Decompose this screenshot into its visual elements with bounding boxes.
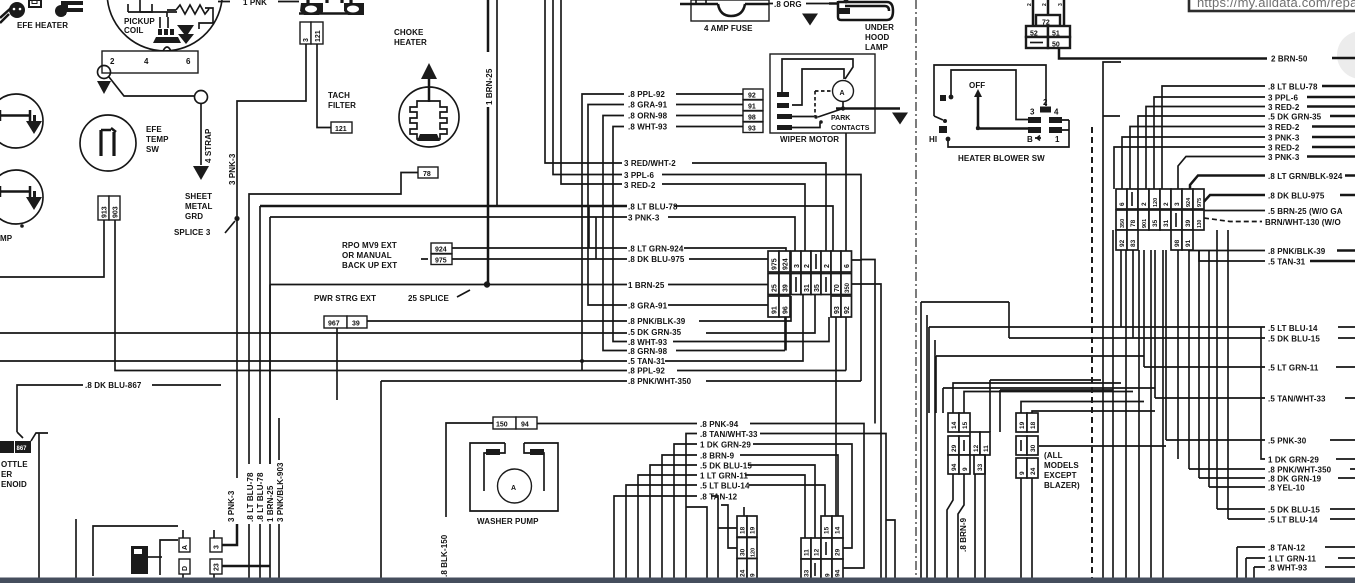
wire pair to red/wht and ppl labels [545, 0, 622, 175]
svg-text:.8 TAN-12: .8 TAN-12 [700, 493, 738, 502]
svg-text:3 RED-2: 3 RED-2 [1268, 103, 1300, 112]
svg-text:9: 9 [1019, 471, 1026, 475]
svg-text:.8 DK BLU-975: .8 DK BLU-975 [628, 255, 685, 264]
wire red/wht-2 [692, 163, 826, 251]
svg-text:MODELS: MODELS [1044, 461, 1079, 470]
svg-text:903: 903 [113, 206, 120, 218]
wire dk blu-975 r [1199, 195, 1265, 210]
wire dk blu-867 [17, 385, 221, 438]
svg-text:19: 19 [750, 526, 757, 534]
under hood lamp [829, 0, 893, 20]
bottom right pin block [801, 516, 843, 580]
svg-text:33: 33 [804, 569, 811, 577]
svg-text:14: 14 [835, 526, 842, 534]
svg-text:.8 GRA-91: .8 GRA-91 [628, 302, 668, 311]
ground arrow sheet metal [193, 166, 209, 180]
svg-text:93: 93 [834, 306, 841, 314]
svg-text:1 LT GRN-11: 1 LT GRN-11 [1268, 555, 1317, 564]
heater blower switch [929, 65, 1069, 147]
svg-text:.8 TAN-12: .8 TAN-12 [1268, 544, 1306, 553]
wire 39 to pnk/blk label [367, 296, 791, 321]
svg-text:MP: MP [0, 234, 13, 243]
wire .5 dk blu-15 b [1217, 230, 1355, 509]
svg-text:CHOKE: CHOKE [394, 28, 424, 37]
right edge stubs top [1307, 86, 1355, 261]
browser url tooltip [1189, 0, 1355, 11]
svg-text:https://my.alldata.com/repa: https://my.alldata.com/repa [1197, 0, 1355, 10]
svg-text:.5 TAN/WHT-33: .5 TAN/WHT-33 [1268, 395, 1326, 404]
wire pin 98 to grn-98 [603, 116, 785, 351]
connector 924 [431, 243, 452, 254]
dashed branch line (right page) [1091, 127, 1093, 578]
connector 23 3 [210, 530, 222, 578]
wire 1 dk grn-29 [1261, 327, 1355, 459]
wire 3 pnk-3 r [1122, 137, 1265, 189]
svg-text:.8 LT GRN/BLK-924: .8 LT GRN/BLK-924 [1268, 172, 1343, 181]
wire 3 ppl-6 r [1154, 97, 1265, 189]
svg-text:.8 ORN-98: .8 ORN-98 [628, 112, 668, 121]
connector A D [179, 530, 190, 578]
svg-text:30: 30 [1030, 444, 1037, 452]
svg-text:39: 39 [783, 284, 790, 292]
svg-text:975: 975 [1197, 198, 1203, 207]
wire stub to lt grn-924 [589, 206, 596, 259]
label TACH FILTER [328, 91, 356, 110]
left gauge circle 1 [0, 94, 43, 148]
svg-text:.8 DK GRN-19: .8 DK GRN-19 [1268, 475, 1322, 484]
svg-text:924: 924 [783, 258, 790, 270]
svg-text:PICKUP: PICKUP [124, 17, 155, 26]
wire dk blu-15 [650, 465, 815, 578]
wire .8 lt blu-78 r [1162, 86, 1265, 189]
wire tan/wht-33 [686, 434, 886, 579]
svg-text:A: A [840, 90, 845, 97]
svg-text:BACK UP EXT: BACK UP EXT [342, 261, 397, 270]
svg-text:3 PPL-6: 3 PPL-6 [624, 171, 654, 180]
throttle kicker connector [0, 433, 48, 453]
svg-text:.8 LT BLU-78: .8 LT BLU-78 [256, 472, 265, 522]
svg-text:3: 3 [1174, 202, 1181, 206]
page boundary dash-dot line [915, 0, 917, 578]
svg-text:SPLICE 3: SPLICE 3 [174, 228, 211, 237]
svg-text:FILTER: FILTER [328, 101, 356, 110]
wire 23 cell bus [222, 565, 270, 568]
svg-text:92: 92 [748, 93, 756, 100]
svg-text:WIPER MOTOR: WIPER MOTOR [780, 135, 839, 144]
left gauge circle 2 [0, 170, 43, 228]
svg-text:91: 91 [772, 306, 779, 314]
svg-text:924: 924 [435, 247, 447, 254]
verticals below right block [1121, 250, 1178, 459]
svg-text:15: 15 [962, 421, 969, 429]
svg-text:PWR STRG EXT: PWR STRG EXT [314, 294, 376, 303]
splice 3 node [234, 216, 239, 221]
svg-text:30: 30 [740, 548, 747, 556]
svg-text:120: 120 [1153, 198, 1159, 207]
svg-text:50: 50 [1052, 42, 1060, 49]
svg-text:6: 6 [186, 57, 191, 66]
svg-text:29: 29 [951, 444, 958, 452]
node ground at pin2 [97, 66, 111, 95]
wire ppl-6 [662, 175, 861, 261]
svg-text:3: 3 [303, 38, 310, 42]
svg-text:.5 LT BLU-14: .5 LT BLU-14 [1268, 324, 1318, 333]
right mid horizontals [921, 302, 1009, 578]
wire tan-31 r [1199, 250, 1265, 261]
vertical wire labels bottom left [227, 462, 285, 522]
svg-text:4: 4 [1054, 108, 1059, 117]
svg-text:78: 78 [1130, 219, 1137, 227]
svg-text:2: 2 [1141, 202, 1148, 206]
svg-text:.5 DK BLU-15: .5 DK BLU-15 [1268, 506, 1320, 515]
wire stub left low [75, 519, 77, 578]
wires below left pin block [741, 580, 752, 582]
svg-text:1 DK GRN-29: 1 DK GRN-29 [700, 441, 751, 450]
4 amp fuse [680, 0, 769, 21]
wire pnk-94 right [750, 424, 864, 569]
ground arrow org [802, 4, 818, 26]
svg-text:12: 12 [814, 548, 821, 556]
ground arrow wiper [892, 109, 908, 125]
svg-text:1 BRN-25: 1 BRN-25 [266, 485, 275, 522]
wires below block B [1021, 478, 1032, 578]
svg-text:2: 2 [1163, 202, 1170, 206]
svg-text:52: 52 [1030, 31, 1038, 38]
wire pin2 node to strap node [109, 77, 195, 96]
svg-text:3: 3 [214, 545, 221, 549]
wire gra-91 [668, 304, 770, 306]
wire lt grn-924 [684, 248, 786, 252]
distributor circle with pickup coil [108, 0, 223, 51]
wire pin 91 to gra-91 [588, 105, 627, 306]
svg-text:.8 PNK/WHT-350: .8 PNK/WHT-350 [628, 377, 692, 386]
svg-text:BLAZER): BLAZER) [1044, 481, 1080, 490]
svg-text:.8 ORG: .8 ORG [774, 0, 802, 9]
svg-text:31: 31 [804, 284, 811, 292]
wire 1 brn-25 vertical [487, 0, 488, 285]
clip symbols [299, 0, 364, 15]
wire .8 tan-12 b [1237, 547, 1355, 578]
svg-text:3: 3 [794, 264, 801, 268]
svg-text:1 BRN-25: 1 BRN-25 [628, 281, 665, 290]
choke heater [399, 63, 459, 147]
svg-text:6: 6 [1119, 202, 1126, 206]
svg-text:913: 913 [102, 206, 109, 218]
wire 3 red-2 r [1146, 107, 1265, 190]
svg-text:1 PNK: 1 PNK [243, 0, 267, 7]
long wire dk grn-35 [0, 295, 815, 333]
svg-text:.8 LT BLU-78: .8 LT BLU-78 [1268, 83, 1318, 92]
svg-text:2: 2 [824, 264, 831, 268]
wire block right row2 [852, 284, 896, 578]
svg-text:24: 24 [1030, 467, 1037, 475]
svg-text:HI: HI [929, 135, 937, 144]
svg-text:9: 9 [962, 467, 969, 471]
svg-text:51: 51 [1052, 31, 1060, 38]
svg-text:HEATER: HEATER [394, 38, 427, 47]
svg-text:.5 DK GRN-35: .5 DK GRN-35 [628, 328, 682, 337]
svg-text:901: 901 [1142, 219, 1148, 228]
svg-text:130: 130 [1197, 219, 1203, 228]
svg-text:CONTACTS: CONTACTS [831, 125, 870, 132]
connector 913 903 [98, 196, 120, 220]
svg-text:.8 TAN/WHT-33: .8 TAN/WHT-33 [700, 430, 758, 439]
wire brn-25 w/o [1204, 210, 1265, 212]
svg-text:4 STRAP: 4 STRAP [204, 128, 213, 163]
svg-text:.5 DK BLU-15: .5 DK BLU-15 [1268, 335, 1320, 344]
svg-text:.8 LT GRN-924: .8 LT GRN-924 [628, 245, 684, 254]
svg-text:3 PNK-3: 3 PNK-3 [1268, 134, 1300, 143]
svg-text:.5 DK BLU-15: .5 DK BLU-15 [700, 462, 752, 471]
connector 78 [418, 167, 438, 178]
svg-text:39: 39 [352, 321, 360, 328]
svg-text:RPO MV9 EXT: RPO MV9 EXT [342, 241, 397, 250]
svg-text:3 PNK/BLK-903: 3 PNK/BLK-903 [276, 462, 285, 522]
svg-text:39: 39 [1185, 219, 1192, 227]
svg-text:SHEET: SHEET [185, 192, 212, 201]
taskbar strip [0, 578, 1355, 583]
svg-text:120: 120 [751, 548, 757, 557]
label UNDER HOOD LAMP [865, 23, 894, 52]
wire 3 pnk-3 upper segment [236, 218, 238, 478]
connector 975 [431, 254, 452, 265]
relay block bottom left [93, 526, 178, 576]
splice 25 node [484, 281, 490, 287]
svg-text:.8 BRN-9: .8 BRN-9 [700, 452, 735, 461]
svg-text:29: 29 [835, 548, 842, 556]
wire from 78 box [249, 173, 418, 465]
wire brn-9 [662, 455, 838, 578]
svg-text:EFE: EFE [146, 125, 162, 134]
wire .5 tan/wht-33 [943, 388, 1355, 413]
svg-text:SW: SW [146, 145, 159, 154]
svg-text:867: 867 [17, 446, 28, 452]
svg-text:B: B [1027, 135, 1033, 144]
efe heater symbol [0, 0, 83, 23]
efe temp switch [80, 115, 136, 171]
svg-text:121: 121 [315, 30, 322, 42]
wire tan-12 [614, 496, 738, 578]
right block feed corner [1103, 62, 1121, 578]
label throttle kicker solenoid [1, 460, 28, 489]
connector 3 121 [300, 22, 323, 44]
svg-text:92: 92 [1119, 239, 1126, 247]
svg-text:9: 9 [825, 573, 832, 577]
svg-text:83: 83 [1130, 239, 1137, 247]
svg-text:.8 GRA-91: .8 GRA-91 [628, 101, 668, 110]
svg-text:94: 94 [521, 422, 529, 429]
svg-text:A: A [182, 545, 189, 550]
wire second vertical top [496, 0, 498, 206]
svg-text:.8 DK BLU-867: .8 DK BLU-867 [85, 381, 142, 390]
svg-text:(ALL: (ALL [1044, 451, 1063, 460]
svg-text:GRD: GRD [185, 212, 203, 221]
svg-text:3: 3 [1058, 3, 1064, 6]
wire .5 pnk-30 [1039, 440, 1355, 446]
svg-text:6: 6 [844, 264, 851, 268]
svg-text:TACH: TACH [328, 91, 350, 100]
wire 903 down to ppl-92 run [115, 220, 846, 371]
splice 3 leader [225, 221, 235, 233]
wire 3 cell to pnk-3 [222, 524, 237, 545]
wires above blocks A B [953, 383, 1133, 413]
wire lt grn-11 [638, 475, 805, 578]
svg-text:COIL: COIL [124, 26, 144, 35]
svg-text:OR MANUAL: OR MANUAL [342, 251, 392, 260]
svg-text:UNDER: UNDER [865, 23, 894, 32]
connector 72 52 51 50 [1026, 0, 1070, 49]
svg-text:METAL: METAL [185, 202, 212, 211]
wire .8 yel-10 [1209, 250, 1265, 487]
svg-text:15: 15 [824, 526, 831, 534]
wire .8 pnk/wht-350 [1189, 468, 1355, 470]
bottom right block A [948, 413, 990, 474]
wiper pin stub wires [676, 94, 743, 127]
svg-text:.5 LT BLU-14: .5 LT BLU-14 [700, 482, 750, 491]
svg-text:.8 DK BLU-975: .8 DK BLU-975 [1268, 192, 1325, 201]
wire pnk/wht-350 [381, 260, 861, 578]
washer pump connector 150 94 [493, 417, 537, 429]
label RPO MV9 EXT [342, 241, 397, 270]
svg-text:.8 WHT-93: .8 WHT-93 [1268, 564, 1308, 573]
wiper motor box [770, 54, 900, 133]
wires below block A [947, 455, 985, 578]
svg-text:WASHER PUMP: WASHER PUMP [477, 517, 539, 526]
wire 3 pnk-3 r2 [1178, 157, 1265, 190]
svg-text:3: 3 [1030, 108, 1035, 117]
svg-text:94: 94 [951, 463, 958, 471]
label ALL MODELS EXCEPT BLAZER [1044, 451, 1080, 490]
wire 94 to pnk-94 [537, 423, 697, 425]
svg-text:.8 WHT-93: .8 WHT-93 [628, 123, 668, 132]
svg-text:.5 TAN-31: .5 TAN-31 [1268, 258, 1306, 267]
svg-text:91: 91 [1185, 239, 1192, 247]
wire 2 brn-50 [1059, 48, 1267, 59]
svg-text:.5 PNK-30: .5 PNK-30 [1268, 437, 1307, 446]
svg-text:TEMP: TEMP [146, 135, 169, 144]
svg-text:350: 350 [1120, 219, 1126, 228]
wire blk-150 [446, 423, 493, 517]
svg-text:12: 12 [973, 444, 980, 452]
svg-text:150: 150 [496, 422, 508, 429]
svg-text:.5 LT GRN-11: .5 LT GRN-11 [1268, 364, 1319, 373]
wire solenoid down [38, 433, 40, 578]
svg-text:2: 2 [1027, 3, 1033, 6]
svg-text:EFE HEATER: EFE HEATER [17, 21, 68, 30]
svg-text:.8 YEL-10: .8 YEL-10 [1268, 484, 1305, 493]
wire org [769, 3, 829, 5]
wire segments below labels [237, 418, 279, 578]
svg-text:3 PNK-3: 3 PNK-3 [628, 214, 660, 223]
wire from cell 121 down [317, 44, 331, 128]
svg-text:14: 14 [951, 421, 958, 429]
svg-text:2: 2 [110, 57, 115, 66]
svg-text:A: A [511, 485, 516, 492]
svg-text:3 PNK-3: 3 PNK-3 [228, 153, 237, 185]
svg-text:924: 924 [1186, 197, 1192, 207]
wire .5 dk blu-15 [1009, 302, 1355, 338]
svg-text:98: 98 [748, 115, 756, 122]
svg-text:975: 975 [772, 258, 779, 270]
svg-text:91: 91 [748, 104, 756, 111]
wire lt blu-14 [626, 485, 825, 578]
label EFE TEMP SW [146, 125, 169, 154]
svg-text:19: 19 [1019, 421, 1026, 429]
svg-text:OTTLE: OTTLE [1, 460, 28, 469]
svg-text:.5 TAN-31: .5 TAN-31 [628, 357, 666, 366]
central connector block [768, 251, 852, 317]
svg-text:.8 PNK/BLK-39: .8 PNK/BLK-39 [628, 317, 686, 326]
svg-text:3 RED-2: 3 RED-2 [1268, 144, 1300, 153]
wire pnk-3 bus [270, 217, 795, 464]
svg-text:18: 18 [1030, 421, 1037, 429]
wire brn/wht-130 dashed [1204, 218, 1262, 222]
svg-text:23: 23 [214, 563, 221, 571]
wire lt blu-78 bus [260, 205, 627, 208]
svg-text:92: 92 [844, 306, 851, 314]
svg-text:.5 LT BLU-14: .5 LT BLU-14 [1268, 516, 1318, 525]
connector 121 [331, 122, 352, 133]
wire from cell 3 down to pnk-3 bus [237, 44, 306, 216]
wires 924 975 to labels [421, 248, 627, 259]
svg-text:.8 PNK/BLK-39: .8 PNK/BLK-39 [1268, 247, 1326, 256]
svg-text:35: 35 [1152, 219, 1159, 227]
wire 2 brn-50 right stub [1332, 57, 1355, 60]
wire block right row1 [846, 133, 875, 424]
svg-text:.5 DK GRN-35: .5 DK GRN-35 [1268, 113, 1322, 122]
svg-text:D: D [182, 566, 189, 571]
svg-text:2: 2 [1042, 3, 1048, 6]
faint ui circle [1337, 31, 1355, 79]
long wire tan-31 [0, 295, 803, 361]
svg-text:.8 LT BLU-78: .8 LT BLU-78 [628, 203, 678, 212]
wire pin 92 to ppl-92 [582, 94, 624, 371]
svg-text:78: 78 [423, 171, 431, 178]
wire 3 red-2 r3 [1114, 147, 1265, 189]
svg-text:18: 18 [740, 526, 747, 534]
wire pnk/blk-39 r [1189, 249, 1265, 252]
strap node [195, 91, 208, 104]
svg-text:.8 PNK-94: .8 PNK-94 [700, 420, 739, 429]
svg-text:LAMP: LAMP [865, 43, 889, 52]
splice 25 leader [457, 290, 470, 297]
svg-text:11: 11 [804, 549, 811, 556]
svg-text:1 BRN-25: 1 BRN-25 [485, 68, 494, 105]
svg-text:25: 25 [772, 284, 779, 292]
svg-text:EXCEPT: EXCEPT [1044, 471, 1077, 480]
wire red-2 [662, 184, 805, 251]
wire 913 down-left [0, 220, 104, 277]
svg-text:975: 975 [435, 258, 447, 265]
svg-text:3 PNK-3: 3 PNK-3 [1268, 153, 1300, 162]
wire band vertical red-2 [561, 0, 622, 184]
wire 3 red-2 r2 [1130, 127, 1265, 190]
connector 2-4-6 [102, 47, 198, 73]
svg-text:.8 BRN-9: .8 BRN-9 [959, 517, 968, 552]
svg-text:.5 BRN-25 (W/O GA: .5 BRN-25 (W/O GA [1268, 207, 1343, 216]
connector 967 39 [324, 316, 367, 328]
wire .8 dk grn-19 [1199, 477, 1355, 479]
svg-text:.8 GRN-98: .8 GRN-98 [628, 347, 668, 356]
svg-text:1: 1 [1055, 135, 1060, 144]
svg-text:94: 94 [835, 569, 842, 577]
svg-text:ER: ER [1, 470, 12, 479]
svg-text:96: 96 [783, 306, 790, 314]
wire 4 strap down [200, 104, 202, 165]
right connector block [1116, 189, 1204, 250]
svg-text:70: 70 [834, 284, 841, 292]
washer pump body [470, 443, 558, 511]
